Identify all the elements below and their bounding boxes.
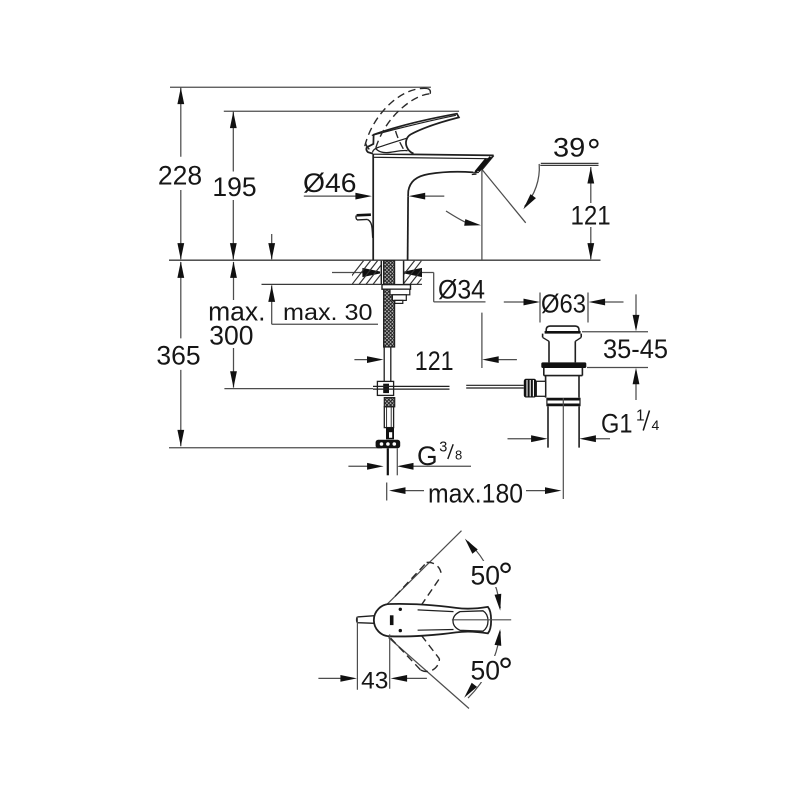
deck underside line — [262, 283, 423, 285]
spout tip face — [482, 155, 494, 169]
arrowheads dims — [177, 88, 184, 105]
pop-up knob on drain — [524, 379, 537, 398]
dim line 365 — [180, 262, 182, 446]
reference lines 35-45 — [582, 332, 648, 368]
svg-text:39: 39 — [553, 133, 585, 163]
faucet body outline — [372, 154, 374, 260]
top view rotation diagonal lower — [389, 638, 470, 709]
knob connector — [536, 381, 545, 396]
dim line G1 1/4 — [508, 438, 611, 440]
black connector block — [386, 428, 394, 440]
drain cap — [546, 326, 579, 332]
deck reference line — [169, 259, 601, 261]
horizontal pop-up rod left — [373, 386, 450, 389]
dashed handle rotated up — [395, 562, 441, 615]
drain flange — [543, 334, 582, 338]
handle top inner line — [372, 115, 456, 135]
svg-text:G1: G1 — [601, 409, 633, 439]
pull rod nub top view — [357, 616, 375, 624]
39 degree reference lines — [540, 163, 598, 165]
spout underside curve — [408, 172, 473, 196]
threaded shank — [384, 261, 395, 347]
dim line D63 — [504, 301, 624, 303]
handle lever side view — [366, 114, 459, 154]
extension line 195 top — [224, 110, 459, 112]
svg-text:121: 121 — [571, 201, 611, 231]
aerator — [479, 157, 491, 171]
reference line max300 bottom — [224, 388, 373, 390]
washer under deck — [382, 285, 411, 290]
underline max30 — [272, 323, 378, 325]
extension line max180 left — [386, 483, 388, 501]
dim line D46 — [304, 195, 445, 197]
svg-text:50: 50 — [471, 561, 500, 591]
svg-text:300: 300 — [209, 321, 253, 351]
svg-text:121: 121 — [415, 346, 454, 376]
mounting nut steps — [390, 289, 410, 295]
rotation arc upper — [468, 542, 500, 609]
threaded block below clamp — [384, 398, 394, 407]
drain upper body — [544, 368, 583, 376]
dashed handle rotated down — [391, 626, 440, 672]
deck hatching right — [396, 261, 436, 285]
drain centerline — [562, 398, 564, 499]
top view rotation diagonal upper — [386, 531, 462, 606]
svg-text:43: 43 — [361, 667, 388, 694]
pivot dots — [399, 608, 402, 611]
svg-text:3: 3 — [439, 440, 447, 456]
handle top view inner blade — [453, 611, 488, 631]
label 50deg lower — [468, 656, 513, 682]
spout angle arc — [525, 164, 540, 207]
pull rod knob side view — [357, 213, 371, 216]
label 50deg upper — [468, 561, 513, 587]
svg-text:8: 8 — [455, 447, 462, 462]
leader arrow curve 121 middle — [446, 211, 467, 223]
svg-text:4: 4 — [652, 417, 660, 433]
slip nut ring — [547, 398, 580, 401]
rod clamp block — [377, 381, 393, 395]
spout top edge — [373, 154, 494, 156]
dim 43 extension lines — [357, 617, 389, 690]
dim line G3/8 — [348, 465, 471, 467]
drain barrel — [546, 376, 579, 398]
dim line 35-45 — [635, 294, 637, 400]
rubber seal ring — [541, 362, 586, 368]
svg-text:50: 50 — [471, 656, 500, 686]
flexible hose end — [387, 448, 389, 475]
svg-text:195: 195 — [212, 172, 256, 202]
extension lines D63 — [540, 293, 588, 323]
svg-text:35-45: 35-45 — [603, 334, 668, 364]
dim line max30 — [271, 234, 273, 324]
handle raised dashed outline — [365, 88, 431, 151]
mounting hole edges — [381, 261, 403, 285]
dim line D34 leader — [332, 273, 486, 302]
svg-text:Ø46: Ø46 — [303, 168, 357, 198]
dim line 195 — [232, 111, 234, 259]
dim line 43 — [318, 677, 427, 679]
svg-text:228: 228 — [158, 161, 202, 191]
reference line 365 bottom — [169, 447, 382, 449]
svg-text:1: 1 — [636, 408, 645, 425]
extension line 228 top — [170, 86, 431, 88]
dim line max300 — [233, 262, 235, 388]
svg-text:Ø63: Ø63 — [541, 290, 586, 318]
dim line max180 — [404, 490, 548, 492]
spout angle diagonal — [482, 169, 526, 222]
svg-text:max.180: max.180 — [428, 478, 523, 508]
top view centerline — [452, 619, 511, 621]
dim line 121 right — [590, 167, 592, 259]
rotation arc lower — [468, 631, 500, 698]
extension line spout tip vertical — [481, 169, 483, 368]
svg-text:Ø34: Ø34 — [438, 274, 485, 304]
svg-text:365: 365 — [156, 341, 200, 371]
dim line 228 — [180, 87, 182, 259]
knurled hose nut — [376, 440, 401, 449]
deck hatching left — [345, 261, 392, 285]
handle top view outline — [374, 604, 491, 637]
svg-text:G: G — [417, 441, 438, 471]
horizontal pop-up rod right — [466, 385, 524, 388]
pull rod lower tube — [384, 347, 391, 381]
handle boss inner line — [373, 138, 408, 152]
svg-text:max. 30: max. 30 — [283, 299, 373, 325]
pivot center bar — [390, 615, 394, 625]
drain neck — [549, 341, 575, 362]
dim line 121 middle — [354, 359, 517, 361]
tailpipe — [548, 406, 579, 447]
supply connector tube — [384, 407, 393, 428]
